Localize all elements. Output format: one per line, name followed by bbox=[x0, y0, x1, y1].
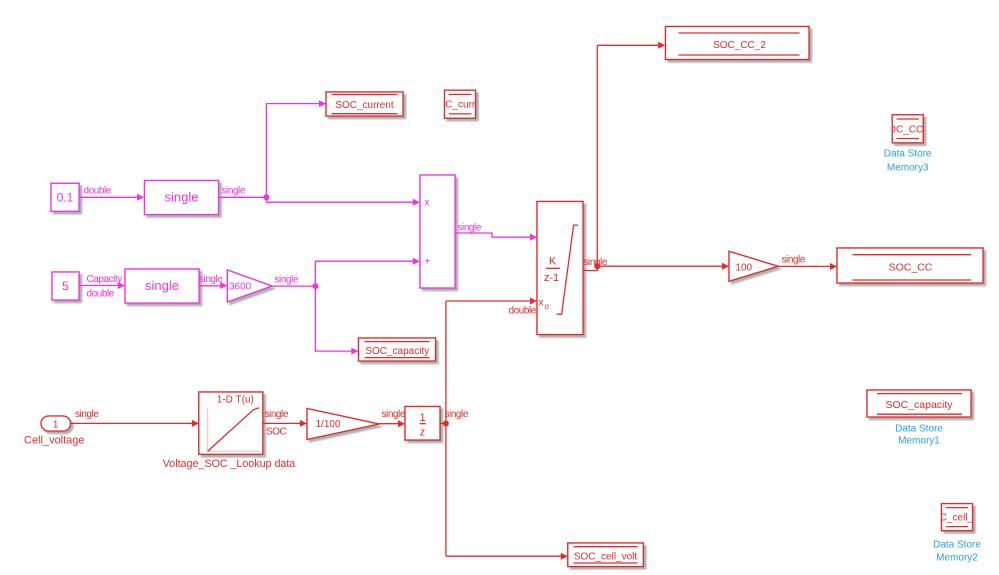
data store write SOC_capacity bbox=[359, 338, 436, 361]
svg-text:single: single bbox=[265, 409, 289, 420]
discrete-time integrator K/(z-1) bbox=[537, 202, 583, 335]
svg-text:single: single bbox=[165, 190, 199, 205]
wire const 5 to single2 bbox=[79, 274, 125, 300]
gain 3600 bbox=[227, 270, 272, 302]
svg-text:single: single bbox=[458, 223, 482, 234]
svg-text:+: + bbox=[425, 257, 431, 268]
svg-text:3600: 3600 bbox=[229, 282, 252, 293]
vertical wire junction C up to x0 and down bbox=[445, 301, 447, 556]
wire single1 to junction A bbox=[219, 186, 267, 198]
wire single2 to gain 3600 bbox=[199, 274, 227, 289]
svg-text:Cell_voltage: Cell_voltage bbox=[24, 435, 85, 447]
junction B bbox=[312, 283, 318, 289]
svg-text:SOC_cell_volt: SOC_cell_volt bbox=[574, 551, 638, 562]
svg-text:1: 1 bbox=[53, 420, 59, 431]
svg-text:z: z bbox=[420, 427, 426, 439]
svg-text:SOC_CC_2: SOC_CC_2 bbox=[882, 125, 935, 136]
data store write SOC_CC bbox=[837, 248, 983, 283]
svg-text:Capacity: Capacity bbox=[87, 274, 123, 285]
svg-text:SOC_CC: SOC_CC bbox=[889, 261, 933, 273]
data type conversion single2 bbox=[125, 269, 199, 303]
svg-text:Data Store: Data Store bbox=[895, 424, 943, 435]
wire junction A to product x input bbox=[266, 197, 419, 205]
inport Cell_voltage bbox=[24, 416, 85, 447]
junction A bbox=[263, 194, 269, 200]
data store read C_current bbox=[431, 90, 490, 118]
svg-text:z-1: z-1 bbox=[544, 272, 559, 284]
svg-text:Data Store: Data Store bbox=[933, 540, 981, 551]
wire gain 1/100 to unit delay bbox=[379, 409, 406, 427]
label Data Store Memory3 bbox=[884, 149, 932, 174]
svg-text:o: o bbox=[545, 302, 550, 311]
svg-text:single: single bbox=[275, 275, 299, 286]
data store write SOC_CC_2 bbox=[666, 27, 810, 60]
divide block bbox=[420, 175, 455, 288]
svg-text:single: single bbox=[199, 274, 223, 285]
svg-text:K: K bbox=[549, 256, 557, 268]
junction D bbox=[594, 263, 600, 269]
svg-text:SOC_CC_2: SOC_CC_2 bbox=[713, 40, 766, 51]
svg-text:single: single bbox=[75, 409, 99, 420]
data type conversion single1 bbox=[145, 181, 219, 215]
svg-text:Data Store: Data Store bbox=[884, 149, 932, 160]
wire unit delay to junction C bbox=[440, 423, 446, 425]
data store memory3 bbox=[882, 115, 935, 143]
junction C bbox=[443, 421, 449, 427]
svg-text:single: single bbox=[782, 255, 806, 266]
svg-text:1/100: 1/100 bbox=[316, 419, 341, 430]
wire inport to lookup bbox=[71, 409, 199, 427]
svg-text:x: x bbox=[539, 298, 544, 309]
data store write SOC_current bbox=[326, 92, 403, 116]
gain 1/100 bbox=[307, 409, 379, 440]
svg-text:1: 1 bbox=[419, 412, 425, 424]
label Data Store Memory2 bbox=[933, 540, 981, 564]
wire const 0.1 to single1 bbox=[79, 186, 144, 201]
svg-text:Memory2: Memory2 bbox=[936, 553, 978, 564]
svg-text:single: single bbox=[145, 278, 179, 293]
data store write SOC_cell_volt bbox=[568, 543, 644, 567]
svg-text:SOC_cell_volt: SOC_cell_volt bbox=[925, 513, 989, 524]
wire divide output to integrator bbox=[455, 223, 537, 241]
gain 100 bbox=[729, 251, 778, 281]
wire junction C down to SOC_cell_volt bbox=[446, 553, 568, 560]
svg-text:single: single bbox=[222, 186, 246, 197]
svg-text:double: double bbox=[509, 306, 537, 317]
svg-text:Voltage_SOC _Lookup data: Voltage_SOC _Lookup data bbox=[163, 458, 296, 470]
constant 5 bbox=[52, 272, 79, 300]
wire gain 100 to SOC_CC bbox=[778, 255, 837, 271]
svg-text:5: 5 bbox=[62, 279, 69, 293]
wire integrator output bbox=[583, 45, 608, 270]
svg-text:SOC_current: SOC_current bbox=[431, 100, 490, 111]
unit delay 1/z bbox=[405, 407, 440, 441]
label Data Store Memory1 bbox=[895, 424, 943, 447]
wire x0 from junction C to integrator bbox=[446, 298, 537, 317]
svg-text:0.1: 0.1 bbox=[57, 191, 74, 205]
svg-text:Memory3: Memory3 bbox=[887, 163, 929, 174]
1-D lookup table Voltage_SOC bbox=[163, 392, 296, 470]
svg-text:single: single bbox=[382, 409, 406, 420]
data store memory1 SOC_capacity bbox=[867, 390, 971, 417]
wire top to SOC_CC_2 bbox=[597, 42, 665, 49]
svg-text:double: double bbox=[87, 289, 115, 300]
wire junction D to gain 100 bbox=[597, 263, 729, 270]
svg-text:SOC_current: SOC_current bbox=[335, 100, 394, 111]
svg-text:double: double bbox=[84, 186, 112, 197]
svg-text:SOC_capacity: SOC_capacity bbox=[885, 399, 953, 411]
wire junction B up to product divide input bbox=[315, 258, 419, 286]
svg-text:single: single bbox=[445, 409, 469, 420]
constant 0.1 bbox=[51, 183, 79, 211]
svg-text:1-D T(u): 1-D T(u) bbox=[217, 395, 254, 406]
wire junction A up to SOC_current bbox=[266, 100, 326, 197]
wire junction B down to SOC_capacity bbox=[315, 286, 358, 355]
svg-text:100: 100 bbox=[735, 262, 752, 273]
data store memory2 bbox=[925, 504, 989, 531]
wire gain 3600 to junction B bbox=[272, 275, 315, 287]
svg-text:x: x bbox=[425, 198, 430, 209]
wire lookup to gain 1/100 bbox=[263, 409, 307, 438]
svg-text:SOC_capacity: SOC_capacity bbox=[365, 346, 429, 357]
svg-text:Memory1: Memory1 bbox=[898, 436, 940, 447]
svg-text:SOC: SOC bbox=[266, 427, 287, 438]
